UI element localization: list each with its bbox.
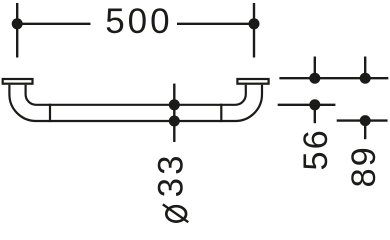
dimension 56 top tick <box>314 57 316 79</box>
svg-text:33: 33 <box>152 152 191 197</box>
dimension 500 right extension line <box>253 3 255 58</box>
dimension 500 line left segment <box>17 23 90 25</box>
svg-text:56: 56 <box>297 128 335 170</box>
dimension Ø33 bottom dot terminator <box>169 116 180 127</box>
dimension 56 bottom tick <box>314 105 316 123</box>
dimension label Ø33 diameter symbol circle <box>166 206 186 221</box>
dimension 500 right dot terminator <box>249 18 260 29</box>
grab bar tube inner contour <box>26 85 246 105</box>
left wall flange <box>3 79 33 84</box>
dimension 89 bottom dot terminator <box>360 115 371 126</box>
svg-text:89: 89 <box>345 145 383 187</box>
right tube joint line <box>220 104 222 122</box>
dimension 500 line right segment <box>177 23 254 25</box>
dimension 500 left dot terminator <box>12 18 23 29</box>
dimension label Ø33 diameter symbol slash <box>163 204 189 222</box>
dimension 89 bottom line <box>337 119 388 121</box>
svg-text:500: 500 <box>105 2 172 41</box>
wall reference line right view <box>279 77 388 79</box>
grab bar tube outer contour <box>9 85 262 121</box>
dimension Ø33 extension line <box>173 84 175 142</box>
dimension 89 top dot terminator <box>360 73 371 84</box>
left tube joint line <box>49 104 51 122</box>
dimension 56 bottom line <box>278 104 336 106</box>
dimension 89 bottom tick <box>364 121 366 140</box>
right wall flange <box>237 79 268 84</box>
dimension Ø33 top dot terminator <box>169 99 180 110</box>
dimension 56 top dot terminator <box>309 73 320 84</box>
dimension 500 left extension line <box>16 3 18 58</box>
dimension 89 top tick <box>364 57 366 79</box>
dimension 56 bottom dot terminator <box>309 99 320 110</box>
